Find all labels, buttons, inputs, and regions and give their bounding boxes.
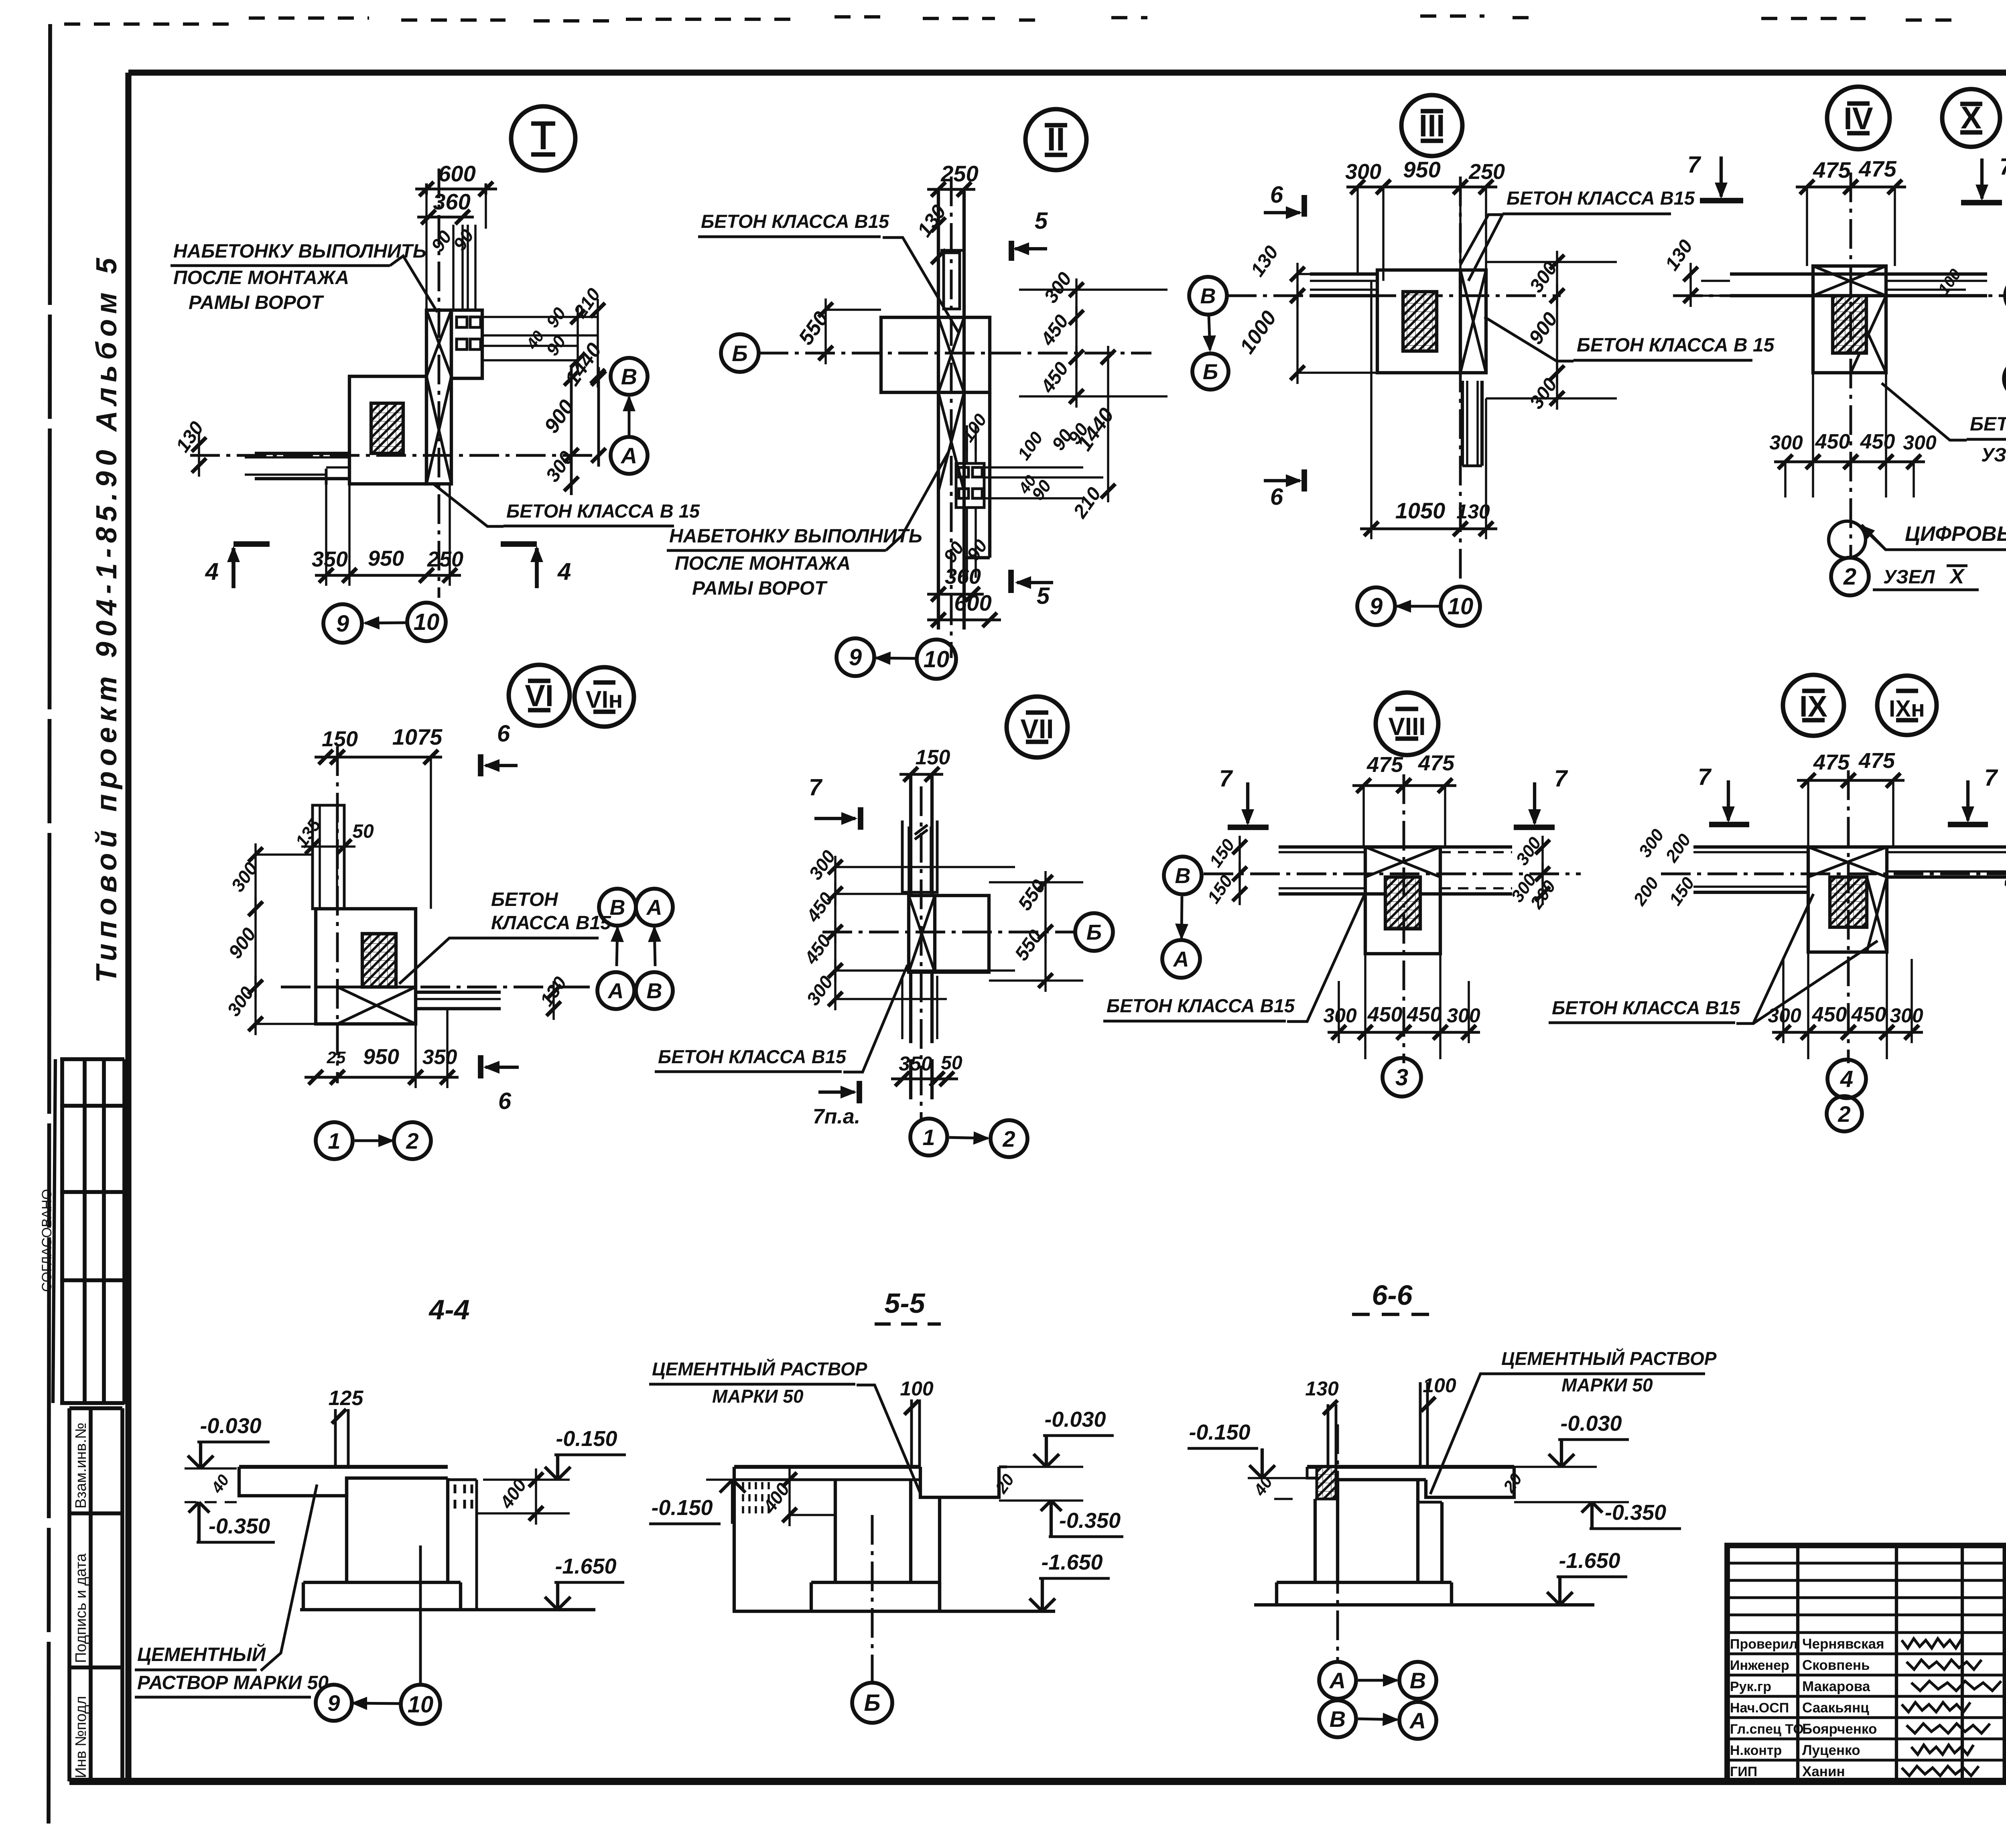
svg-text:1: 1 [922,1125,935,1150]
section 6-6 axis circle А top [1319,1662,1356,1699]
view VIII left dims 150 150 [1206,835,1239,871]
svg-text:А: А [1173,947,1189,971]
svg-text:2: 2 [1002,1126,1015,1151]
svg-text:50: 50 [352,821,374,842]
section 6-6 small dim 40 [1250,1473,1276,1499]
sheet top scan dashes [64,16,2006,24]
svg-text:350: 350 [899,1052,932,1075]
section 4-4 footing [302,1582,305,1610]
svg-text:7: 7 [1219,766,1233,792]
view IX axis vertical [1847,770,1850,1063]
svg-text:Чернявская: Чернявская [1802,1636,1884,1652]
view VI upper axis circle В [599,889,636,926]
view VI arrow А up [617,928,617,966]
view II dims 90 90 right [1014,428,1047,464]
svg-text:7п.а.: 7п.а. [813,1105,861,1128]
svg-text:ПОСЛЕ МОНТАЖА: ПОСЛЕ МОНТАЖА [675,553,851,574]
view VII axis circle 1 [910,1119,947,1156]
svg-text:1075: 1075 [392,724,443,749]
svg-text:Боярченко: Боярченко [1802,1721,1877,1737]
svg-text:Подпись и дата: Подпись и дата [73,1553,89,1663]
svg-text:Н.контр: Н.контр [1730,1743,1782,1758]
svg-text:Саакьянц: Саакьянц [1802,1700,1869,1716]
svg-text:-0.150: -0.150 [651,1496,713,1520]
svg-text:300: 300 [1890,1004,1923,1027]
svg-text:Взам.инв.№: Взам.инв.№ [73,1423,89,1509]
svg-text:В: В [1175,864,1191,888]
svg-text:Б: Б [1203,360,1218,384]
view III axis horizontal [1227,294,1561,297]
view IV marker circle [1827,87,1890,149]
svg-text:6-6: 6-6 [1372,1279,1413,1311]
view VIII hatched column [1385,877,1420,929]
view VII arrow 1 to 2 [949,1137,988,1138]
view II marker circle [1025,109,1086,170]
view IX slab strip right thin [1887,845,2006,849]
view VII plan rectangle [909,896,989,972]
svg-text:9: 9 [849,644,862,670]
view VIII axis circle А left [1162,940,1200,978]
view I small dims right of anchor [542,304,570,331]
svg-text:МАРКИ 50: МАРКИ 50 [1561,1375,1653,1395]
sheet left outer edge line [49,24,50,1824]
section 6-6 footing [1275,1582,1278,1605]
view II dim 550 [794,307,833,349]
view I anchor leader lines right [482,316,598,318]
section 4-4 pedestal [345,1478,348,1582]
section 5-5 axis line [871,1515,874,1683]
svg-text:7: 7 [809,774,823,800]
svg-text:-0.030: -0.030 [1044,1407,1106,1432]
svg-text:10: 10 [1448,593,1474,619]
svg-text:РАСТВОР МАРКИ 50: РАСТВОР МАРКИ 50 [137,1672,329,1694]
view VIII axis circle В left [1164,857,1202,894]
svg-text:1: 1 [328,1128,340,1153]
section 4-4 right dashed block [448,1478,477,1481]
view I anchor plate block [451,310,482,378]
svg-text:ЦЕМЕНТНЫЙ: ЦЕМЕНТНЫЙ [137,1643,266,1665]
section 6-6 small dim 20 right [1499,1470,1526,1496]
svg-text:А: А [646,896,662,920]
section 6-6 side walls [1314,1499,1317,1582]
view VI left rotated dims [227,858,262,896]
view I section mark 4 left [231,548,236,588]
section 6-6 pedestal [1336,1480,1339,1582]
view I axis circle А [611,437,648,474]
svg-text:300: 300 [1903,431,1937,454]
view IV axis circle 2 [1831,558,1869,595]
svg-text:IX: IX [1799,690,1827,723]
svg-text:БЕТОН КЛАССА В15: БЕТОН КЛАССА В15 [701,211,889,232]
view VI arrow 1 to 2 [355,1139,392,1142]
svg-text:450: 450 [1812,1003,1847,1026]
svg-text:ЦЕМЕНТНЫЙ РАСТВОР: ЦЕМЕНТНЫЙ РАСТВОР [652,1359,867,1379]
svg-text:Инв №подл: Инв №подл [73,1696,89,1778]
svg-text:6: 6 [1270,182,1283,208]
view VIII axis vertical [1403,774,1405,1063]
svg-text:125: 125 [329,1387,364,1410]
svg-text:РАМЫ ВОРОТ: РАМЫ ВОРОТ [189,292,324,313]
svg-text:950: 950 [363,1045,399,1069]
view VIII slab strip [1279,845,1512,849]
section 6-6 ground line [1254,1603,1594,1606]
view III x-brace right strip [1459,270,1462,373]
section 5-5 dashed soil hatch [743,1482,769,1515]
view II wall strip vertical [937,191,940,630]
view III plan outline [1377,270,1486,373]
view I dim 900 [540,396,579,437]
svg-text:5: 5 [1035,208,1048,234]
view IV axis horizontal [1673,294,2005,297]
svg-text:-0.350: -0.350 [209,1514,270,1538]
text СОГЛАСОВАНО [39,1189,55,1292]
section 5-5 pedestal [834,1480,837,1582]
view II axis vertical lower [950,177,953,658]
svg-text:475: 475 [1366,753,1403,777]
svg-text:I: I [538,118,548,157]
view VII axis horizontal [822,931,1075,934]
view VII right dims 550 550 [1014,876,1050,914]
view VI dim 130 right [536,973,571,1010]
view VI arrow В up [654,928,655,966]
svg-text:Б: Б [1086,920,1102,944]
svg-text:10: 10 [924,646,950,672]
view II axis circle 9 [837,638,874,676]
view VII wall strip vertical upper [909,776,912,896]
svg-text:А: А [1409,1708,1426,1733]
svg-text:А: А [607,979,624,1003]
svg-text:130: 130 [1305,1377,1339,1400]
svg-text:300: 300 [1768,1004,1801,1027]
title block signature grid [1727,1545,2005,1781]
svg-text:В: В [1330,1706,1346,1732]
view III hatched column [1403,292,1437,351]
svg-text:250: 250 [940,161,978,186]
svg-text:7: 7 [1687,152,1701,178]
section 4-4 top slab [239,1465,448,1469]
section 6-6 rebar lines left [1327,1404,1330,1467]
svg-text:6: 6 [1270,484,1283,510]
view I dim 1440 [560,339,606,390]
svg-text:450: 450 [1367,1003,1403,1026]
svg-text:ПОСЛЕ МОНТАЖА: ПОСЛЕ МОНТАЖА [173,267,349,288]
view VIII axis circle 3 [1383,1058,1421,1097]
section 5-5 small dim 20 right [991,1470,1018,1497]
view II axis circle Б [721,334,759,372]
svg-text:450: 450 [1815,430,1850,453]
svg-text:IV: IV [1844,101,1873,136]
view VI upper axis circle А [636,889,673,926]
view II anchor leader lines right [984,466,1083,469]
svg-text:VIн: VIн [586,686,623,713]
svg-text:300: 300 [1769,431,1803,454]
svg-text:X: X [1949,565,1965,588]
view IV dim 130 left [1661,236,1697,274]
svg-text:475: 475 [1813,750,1850,774]
svg-text:БЕТОН КЛАССА В 15: БЕТОН КЛАССА В 15 [506,500,700,522]
view VI axis circle 1 [316,1122,353,1159]
view VI lower axis circle В [636,972,673,1009]
view VII axis vertical [920,786,923,1119]
text Взам.инв.№ [73,1423,89,1509]
view III dims 130 1000 left [1247,242,1283,280]
section 6-6 axis circle В bottom [1319,1700,1356,1737]
section 5-5 axis circle Б [852,1683,892,1723]
view I axis circle 10 [407,603,446,641]
view III lower wall strip [1461,381,1464,466]
svg-text:2: 2 [1837,1101,1850,1127]
text Подпись и дата [73,1553,89,1663]
svg-text:А: А [620,443,637,468]
view I arrow 10 to 9 [365,623,407,623]
svg-text:ГИП: ГИП [1730,1764,1757,1779]
view VII marker circle [1007,697,1068,757]
view II anchor top box [944,253,960,309]
section 5-5 dim 400 [759,1479,794,1517]
svg-text:100: 100 [900,1377,934,1400]
view II x-brace wall [938,317,964,392]
svg-text:150: 150 [916,746,950,769]
view I axis circle 9 [323,604,362,643]
svg-text:IXн: IXн [1889,696,1925,722]
section 5-5 footing [810,1582,813,1610]
svg-text:БЕТОН КЛАССА В15: БЕТОН КЛАССА В15 [1552,997,1740,1018]
text Инв №подл [73,1696,89,1778]
svg-text:10: 10 [414,609,440,635]
title block main box [1727,1545,2006,1781]
svg-text:-0.350: -0.350 [1059,1509,1121,1533]
view II dim 1440 right [1073,404,1119,455]
svg-text:Луценко: Луценко [1802,1742,1860,1758]
svg-text:-0.150: -0.150 [1189,1420,1250,1444]
section 4-4 dim 400 [495,1475,530,1513]
svg-text:II: II [1047,121,1065,158]
svg-text:9: 9 [336,611,349,637]
svg-text:БЕТОН: БЕТОН [491,889,558,910]
svg-text:475: 475 [1813,157,1851,183]
svg-text:А: А [1329,1668,1346,1693]
title text Компрессорная станция [2005,1651,2006,1655]
view IX hatched column [1830,877,1867,927]
view IV axis circle В top [2005,276,2006,315]
view III axis circle В [1189,277,1227,315]
view III marker circle [1401,95,1462,156]
view III axis circle Б [1192,353,1228,390]
view I dim 300 [542,447,578,486]
svg-text:4-4: 4-4 [428,1294,469,1325]
view II arrow 10 to 9 [876,658,917,658]
svg-text:БЕТОН КЛАССА В 15: БЕТОН КЛАССА В 15 [1970,414,2006,435]
svg-text:Сковпень: Сковпень [1802,1657,1870,1673]
svg-text:КЛАССА В15: КЛАССА В15 [491,912,611,934]
view III right dim chain 300 900 300 [1526,258,1562,296]
view VI axis vertical [336,746,339,1083]
left lower stamp table [69,1408,122,1781]
svg-text:250: 250 [1468,160,1505,184]
view IX axis circle 4 [1827,1060,1866,1098]
view VIII right dims 300 300 200 [1512,833,1545,869]
svg-text:БЕТОН КЛАССА В15: БЕТОН КЛАССА В15 [1507,187,1695,209]
view I axis circle В [611,358,648,395]
view VI axis horizontal [281,986,594,989]
svg-text:950: 950 [368,546,404,571]
view IX center block x-brace [1808,847,1887,952]
svg-text:9: 9 [327,1690,340,1716]
svg-text:7: 7 [1554,766,1568,792]
view IXн marker circle [1877,676,1937,735]
view II axis circle 10 [917,640,956,679]
svg-text:25: 25 [327,1048,346,1067]
svg-text:5: 5 [1037,583,1050,609]
svg-text:Б: Б [732,341,748,366]
svg-text:300: 300 [1447,1004,1480,1027]
view II right dim chain 300 450 450 [1040,268,1076,307]
svg-text:7: 7 [1698,764,1712,790]
svg-text:В: В [610,896,625,920]
svg-text:475: 475 [1858,749,1895,773]
section 4-4 axis circle 9 [316,1685,352,1721]
view VI x-brace bottom strip [316,986,416,989]
section 6-6 rebar lines right [1419,1382,1422,1467]
view VII left dim chain 300 450 450 300 [805,846,840,883]
svg-text:РАМЫ ВОРОТ: РАМЫ ВОРОТ [692,578,828,599]
svg-text:300: 300 [1323,1004,1357,1027]
view VI axis circle 2 [394,1122,431,1159]
svg-text:7: 7 [2000,154,2006,180]
vertical text Типовой проект 904-1-85.90 Альбом 5 [91,253,123,983]
svg-text:X: X [1961,100,1982,135]
section 6-6 arrow В to А [1358,1719,1397,1720]
svg-text:ЦЕМЕНТНЫЙ РАСТВОР: ЦЕМЕНТНЫЙ РАСТВОР [1501,1348,1717,1369]
svg-text:Гл.спец ТО: Гл.спец ТО [1730,1722,1804,1737]
view VIII axis horizontal [1204,873,1581,875]
svg-text:VII: VII [1020,714,1054,744]
view VI small dims 135 50 [292,815,325,851]
view VII x-brace left strip [909,896,935,972]
svg-text:-0.030: -0.030 [200,1414,261,1438]
svg-text:VI: VI [525,679,554,713]
section 6-6 top slab [1307,1465,1514,1469]
svg-text:VIII: VIII [1388,713,1425,741]
svg-text:Типовой проект 904-1-85.90: Типовой проект 904-1-85.90 Альбом 5 [91,253,123,983]
title text ТП 904-1-85.90-КЖ [2005,1611,2006,1616]
svg-text:9: 9 [1370,593,1383,619]
svg-text:СОГЛАСОВАНО: СОГЛАСОВАНО [39,1189,55,1292]
svg-text:Нач.ОСП: Нач.ОСП [1730,1700,1789,1716]
svg-text:В: В [647,979,662,1003]
svg-text:2: 2 [406,1128,418,1153]
view III axis vertical to circles [1459,177,1462,587]
svg-text:БЕТОН КЛАССА В15: БЕТОН КЛАССА В15 [1107,995,1295,1016]
section 4-4 axis line [419,1545,422,1685]
view I anchor bolt lines [452,225,455,310]
svg-text:БЕТОН КЛАССА В 15: БЕТОН КЛАССА В 15 [1577,335,1775,356]
svg-text:-0.030: -0.030 [1560,1411,1622,1436]
svg-text:150: 150 [322,727,358,751]
view III axis circle 10 [1441,587,1480,626]
section 4-4 axis circle 10 [401,1685,440,1724]
view II anchor plates lower [956,463,984,508]
view VI plan square [316,909,416,1024]
view II dim 130 [913,201,950,241]
svg-text:7: 7 [1984,765,1998,791]
view IX axis circle 2 [1827,1096,1862,1131]
section 6-6 hatched column small [1317,1467,1336,1499]
svg-text:-0.350: -0.350 [1605,1501,1666,1525]
svg-text:Проверил: Проверил [1730,1637,1798,1652]
section 6-6 axis circle А bottom [1399,1702,1436,1739]
svg-text:Макарова: Макарова [1802,1679,1870,1694]
section 4-4 ground line [300,1608,595,1611]
view IX slab strip left [1693,845,1808,849]
view VIII center block x-brace [1365,847,1440,954]
section 5-5 top slab [734,1465,920,1469]
svg-text:БЕТОН КЛАССА В15: БЕТОН КЛАССА В15 [658,1046,847,1067]
view VI hatched column [362,934,396,987]
section 4-4 arrow 10 to 9 [353,1703,400,1704]
svg-text:Рук.гр: Рук.гр [1730,1679,1771,1694]
svg-text:4: 4 [1840,1066,1853,1092]
view VIн marker circle [575,667,634,727]
view IV hatched column [1833,296,1866,353]
view II plan rectangle [881,317,990,392]
view IX right rotated dims [1999,859,2006,895]
stage-sheet grid [2005,1653,2006,1781]
view II dim 100 [958,410,991,446]
view VI lower axis circle А [597,972,634,1009]
view IV node circle empty [1829,521,1866,558]
view II bottom dims 90 90 360 600 [939,538,968,567]
view IX left rotated dims [1635,825,1668,861]
view III axis circle 9 [1357,587,1395,625]
svg-text:-1.650: -1.650 [555,1554,616,1578]
view I dims 90 90 [427,227,456,256]
svg-text:-1.650: -1.650 [1559,1549,1620,1573]
svg-text:4: 4 [557,558,571,585]
svg-text:350: 350 [312,547,348,571]
view X marker circle [1942,89,2000,147]
svg-text:450: 450 [1851,1003,1886,1026]
svg-text:3: 3 [1395,1064,1408,1091]
svg-text:2: 2 [1843,564,1856,590]
view IV slab strip horizontal [1730,272,1987,276]
svg-text:НАБЕТОНКУ ВЫПОЛНИТЬ: НАБЕТОНКУ ВЫПОЛНИТЬ [669,526,922,547]
svg-text:475: 475 [1418,751,1455,775]
section 6-6 axis line [1336,1424,1339,1662]
view VI left pilaster column [313,805,344,909]
svg-text:6: 6 [497,721,510,747]
svg-text:В: В [621,364,637,389]
view I arrow A to B [628,397,631,437]
svg-text:ЦИФРОВЫЕ ОСИ: ЦИФРОВЫЕ ОСИ [1905,522,2006,546]
svg-text:950: 950 [1403,157,1440,182]
svg-text:6: 6 [498,1088,512,1114]
view I section mark 4 right [535,548,539,588]
svg-text:5-5: 5-5 [884,1288,925,1319]
view I hatched column [371,403,403,453]
svg-text:475: 475 [1858,156,1896,181]
svg-text:Б: Б [864,1690,880,1716]
svg-text:50: 50 [941,1052,962,1074]
svg-text:450: 450 [1860,430,1895,453]
svg-text:Инженер: Инженер [1730,1658,1789,1673]
svg-text:450: 450 [1407,1003,1442,1026]
view VI right extension strip [416,991,501,994]
left upper approval table [53,1059,124,1404]
view VII axis circle Б [1075,913,1113,951]
svg-text:600: 600 [438,161,475,186]
svg-text:В: В [1410,1668,1426,1693]
